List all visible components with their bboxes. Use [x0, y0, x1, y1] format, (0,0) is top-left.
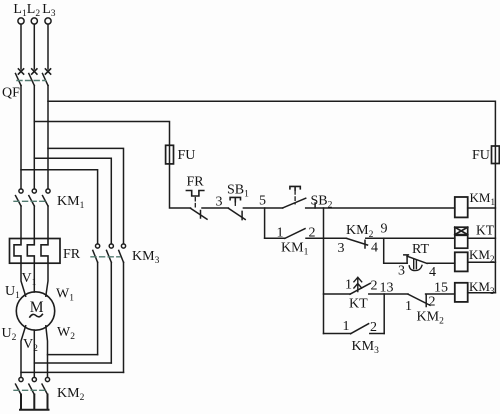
thermal relay FR heater box [10, 239, 61, 264]
KM1 mechanical link (dashed) [14, 200, 46, 202]
wire FR to motor U1 [21, 263, 26, 296]
SB2 seat tick [314, 203, 316, 208]
wire KT contact to node13 [369, 293, 408, 295]
svg-text:KM3: KM3 [469, 279, 495, 296]
svg-text:KM3: KM3 [352, 339, 380, 356]
SB2 link dashes [294, 191, 296, 204]
coil KM1 [455, 197, 468, 217]
svg-text:KM2: KM2 [346, 223, 374, 240]
wire KM1 pole1 to FR [20, 206, 22, 239]
RT delay symbol (parachute) [409, 259, 422, 270]
svg-text:1: 1 [277, 226, 284, 241]
wire KT coil to right rail [468, 237, 496, 239]
svg-text:KM2: KM2 [57, 386, 85, 403]
wire KM1 coil to right rail [468, 207, 496, 209]
KM2 NO seat tick [425, 294, 427, 306]
wire FR to motor V1 [33, 263, 35, 292]
FR NC contact seat tick [200, 211, 202, 219]
svg-text:U2: U2 [2, 326, 17, 343]
svg-text:L3: L3 [42, 2, 56, 19]
node 13 branch down [383, 294, 385, 334]
wire L1 drop to QF [20, 24, 22, 69]
svg-text:FR: FR [63, 247, 81, 262]
svg-text:1: 1 [405, 299, 412, 314]
node 5 branch down [264, 208, 266, 238]
svg-text:KT: KT [476, 223, 495, 238]
wire KM2 star bar [20, 395, 49, 410]
row3 wire node9 to RT [384, 262, 407, 264]
svg-text:U1: U1 [5, 284, 20, 301]
RT contact seat [404, 255, 409, 263]
node L2 terminal [31, 18, 37, 24]
svg-text:13: 13 [380, 281, 394, 296]
KM3 mechanical link (dashed) [91, 256, 120, 258]
wire pole2 QF to KM1 [33, 86, 35, 189]
node 9 branch down [383, 238, 385, 263]
row2 wire rail to KM2 NC [324, 237, 347, 239]
svg-text:W1: W1 [56, 287, 74, 304]
wire motor V2 down [33, 330, 35, 377]
contactor KM1 pole 1 [16, 189, 24, 206]
wire KM2 coil to right rail [468, 261, 496, 263]
svg-text:KM2: KM2 [417, 310, 445, 327]
svg-text:FU: FU [178, 148, 196, 163]
svg-text:2: 2 [371, 279, 378, 294]
wire KM1 pole2 to FR [33, 206, 35, 239]
wire pole3 QF to KM1 [47, 86, 49, 189]
svg-text:W2: W2 [57, 325, 75, 342]
pushbutton SB1 plunger [230, 197, 240, 201]
svg-text:SB1: SB1 [227, 183, 249, 200]
KM2 mechanical link (dashed) [14, 389, 45, 391]
fuse FU left [166, 145, 174, 164]
svg-text:15: 15 [434, 281, 448, 296]
svg-text:4: 4 [429, 265, 436, 280]
pushbutton SB2 plunger [290, 186, 300, 190]
contactor KM3 pole 2 [107, 244, 114, 363]
svg-text:KM2: KM2 [469, 247, 494, 264]
wire tap L3 to right rail [48, 101, 495, 146]
contactor KM2 pole 1 [16, 377, 24, 394]
contactor KM3 pole 1 [93, 244, 100, 355]
KT contact delay arrows [354, 277, 362, 291]
contactor KM2 pole 2 [29, 377, 37, 394]
QF mechanical link (dashed) [17, 80, 46, 82]
svg-text:3: 3 [398, 264, 405, 279]
svg-text:2: 2 [309, 226, 316, 241]
coil KM3 [455, 283, 468, 302]
wire right rail [494, 164, 496, 293]
breaker QF pole 2 [29, 69, 37, 86]
svg-text:3: 3 [338, 241, 345, 256]
wire KM2 NC to KT coil [366, 237, 455, 239]
motor tilde [30, 314, 43, 317]
row4 wire rail to KT contact [324, 293, 351, 295]
contactor KM1 pole 2 [29, 189, 37, 206]
wire RT to KM2 coil [427, 262, 455, 264]
wire motor W2 down [46, 326, 48, 378]
svg-text:KT: KT [349, 297, 368, 312]
SB1 NC contact seat tick [241, 211, 243, 219]
svg-text:1: 1 [343, 319, 350, 334]
svg-text:M: M [30, 299, 44, 316]
breaker QF pole 3 [43, 69, 51, 86]
FR NC contact blade [191, 208, 208, 219]
KM2 NO contact blade (1-2) [408, 294, 430, 305]
svg-text:KM1: KM1 [281, 241, 309, 258]
svg-text:4: 4 [371, 241, 378, 256]
wire tap L2 to left fuse [34, 122, 169, 146]
KM1 aux NO contact (1-2) [265, 237, 285, 239]
KM2 NC contact blade (3-4) [347, 238, 368, 245]
wire FR to motor W1 [46, 263, 48, 296]
breaker QF pole 1 [16, 69, 24, 86]
KM2 NC seat tick [364, 240, 366, 248]
FR contact link dashes [194, 198, 196, 208]
wire pole1 QF to KM1 [20, 86, 22, 189]
wire KM3 coil to right rail [468, 292, 496, 294]
svg-text:L2: L2 [27, 2, 41, 19]
wire U2 tap to KM3 pole3 [21, 371, 124, 373]
svg-text:RT: RT [412, 242, 429, 257]
svg-text:L1: L1 [13, 2, 27, 19]
svg-text:FU: FU [472, 148, 490, 163]
SB1 link dashes [234, 202, 236, 207]
svg-text:1: 1 [345, 278, 352, 293]
wire tap pole3 to KM3 pole3 [48, 148, 124, 244]
wire left rail down [323, 208, 325, 334]
node L3 terminal [45, 18, 51, 24]
wire KM1 pole3 to FR [47, 206, 49, 239]
svg-text:5: 5 [259, 194, 266, 209]
svg-text:KM1: KM1 [470, 190, 495, 207]
wire FU left to FR contact [170, 164, 191, 208]
wire node15 to KM3 coil [426, 293, 455, 295]
wire motor U2 down [21, 326, 26, 378]
contactor KM2 pole 3 [42, 377, 50, 394]
wire tap pole2 to KM3 pole2 [34, 158, 111, 244]
svg-text:KM3: KM3 [132, 249, 160, 266]
KM3 aux NO contact blade (1-2) [351, 324, 369, 334]
wire SB1 to SB2 [243, 207, 282, 209]
wire L2 drop to QF [33, 24, 35, 69]
svg-text:V2: V2 [23, 337, 38, 354]
coil KM2 [455, 252, 468, 271]
FR heater element 3 [41, 239, 48, 264]
RT delayed contact blade [407, 256, 427, 263]
svg-text:2: 2 [370, 320, 377, 335]
coil KT (delay) [455, 227, 468, 248]
row5 wire rail to KM3 aux [324, 333, 351, 335]
svg-text:SB2: SB2 [311, 194, 333, 211]
wire tap pole1 to KM3 pole1 [21, 170, 98, 244]
contactor KM1 pole 3 [43, 189, 51, 206]
wire W2 tap to KM3 pole1 [48, 354, 98, 356]
wire SB2 to KM1 coil [306, 207, 455, 209]
fuse FU right [492, 146, 500, 164]
svg-text:FR: FR [187, 175, 205, 190]
KT delayed NO contact blade (1-2) [350, 283, 370, 294]
SB2 NO contact blade [283, 198, 306, 208]
svg-text:3: 3 [216, 195, 223, 210]
wire FR contact to SB1 [202, 207, 228, 209]
svg-text:9: 9 [381, 222, 388, 237]
SB1 NC contact blade [228, 208, 245, 219]
wire KM3 aux to node13 [370, 333, 384, 335]
wire V2 tap to KM3 pole2 [34, 362, 111, 364]
contactor KM3 pole 3 [119, 244, 126, 373]
wire L3 drop to QF [47, 24, 49, 69]
motor M circle [16, 292, 54, 330]
svg-text:2: 2 [429, 295, 436, 310]
node L1 terminal [18, 18, 24, 24]
thermal contact FR symbol [186, 191, 203, 197]
svg-text:QF: QF [2, 86, 20, 101]
svg-text:KM1: KM1 [57, 194, 85, 211]
FR heater element 2 [27, 239, 34, 264]
FR heater element 1 [14, 239, 21, 264]
